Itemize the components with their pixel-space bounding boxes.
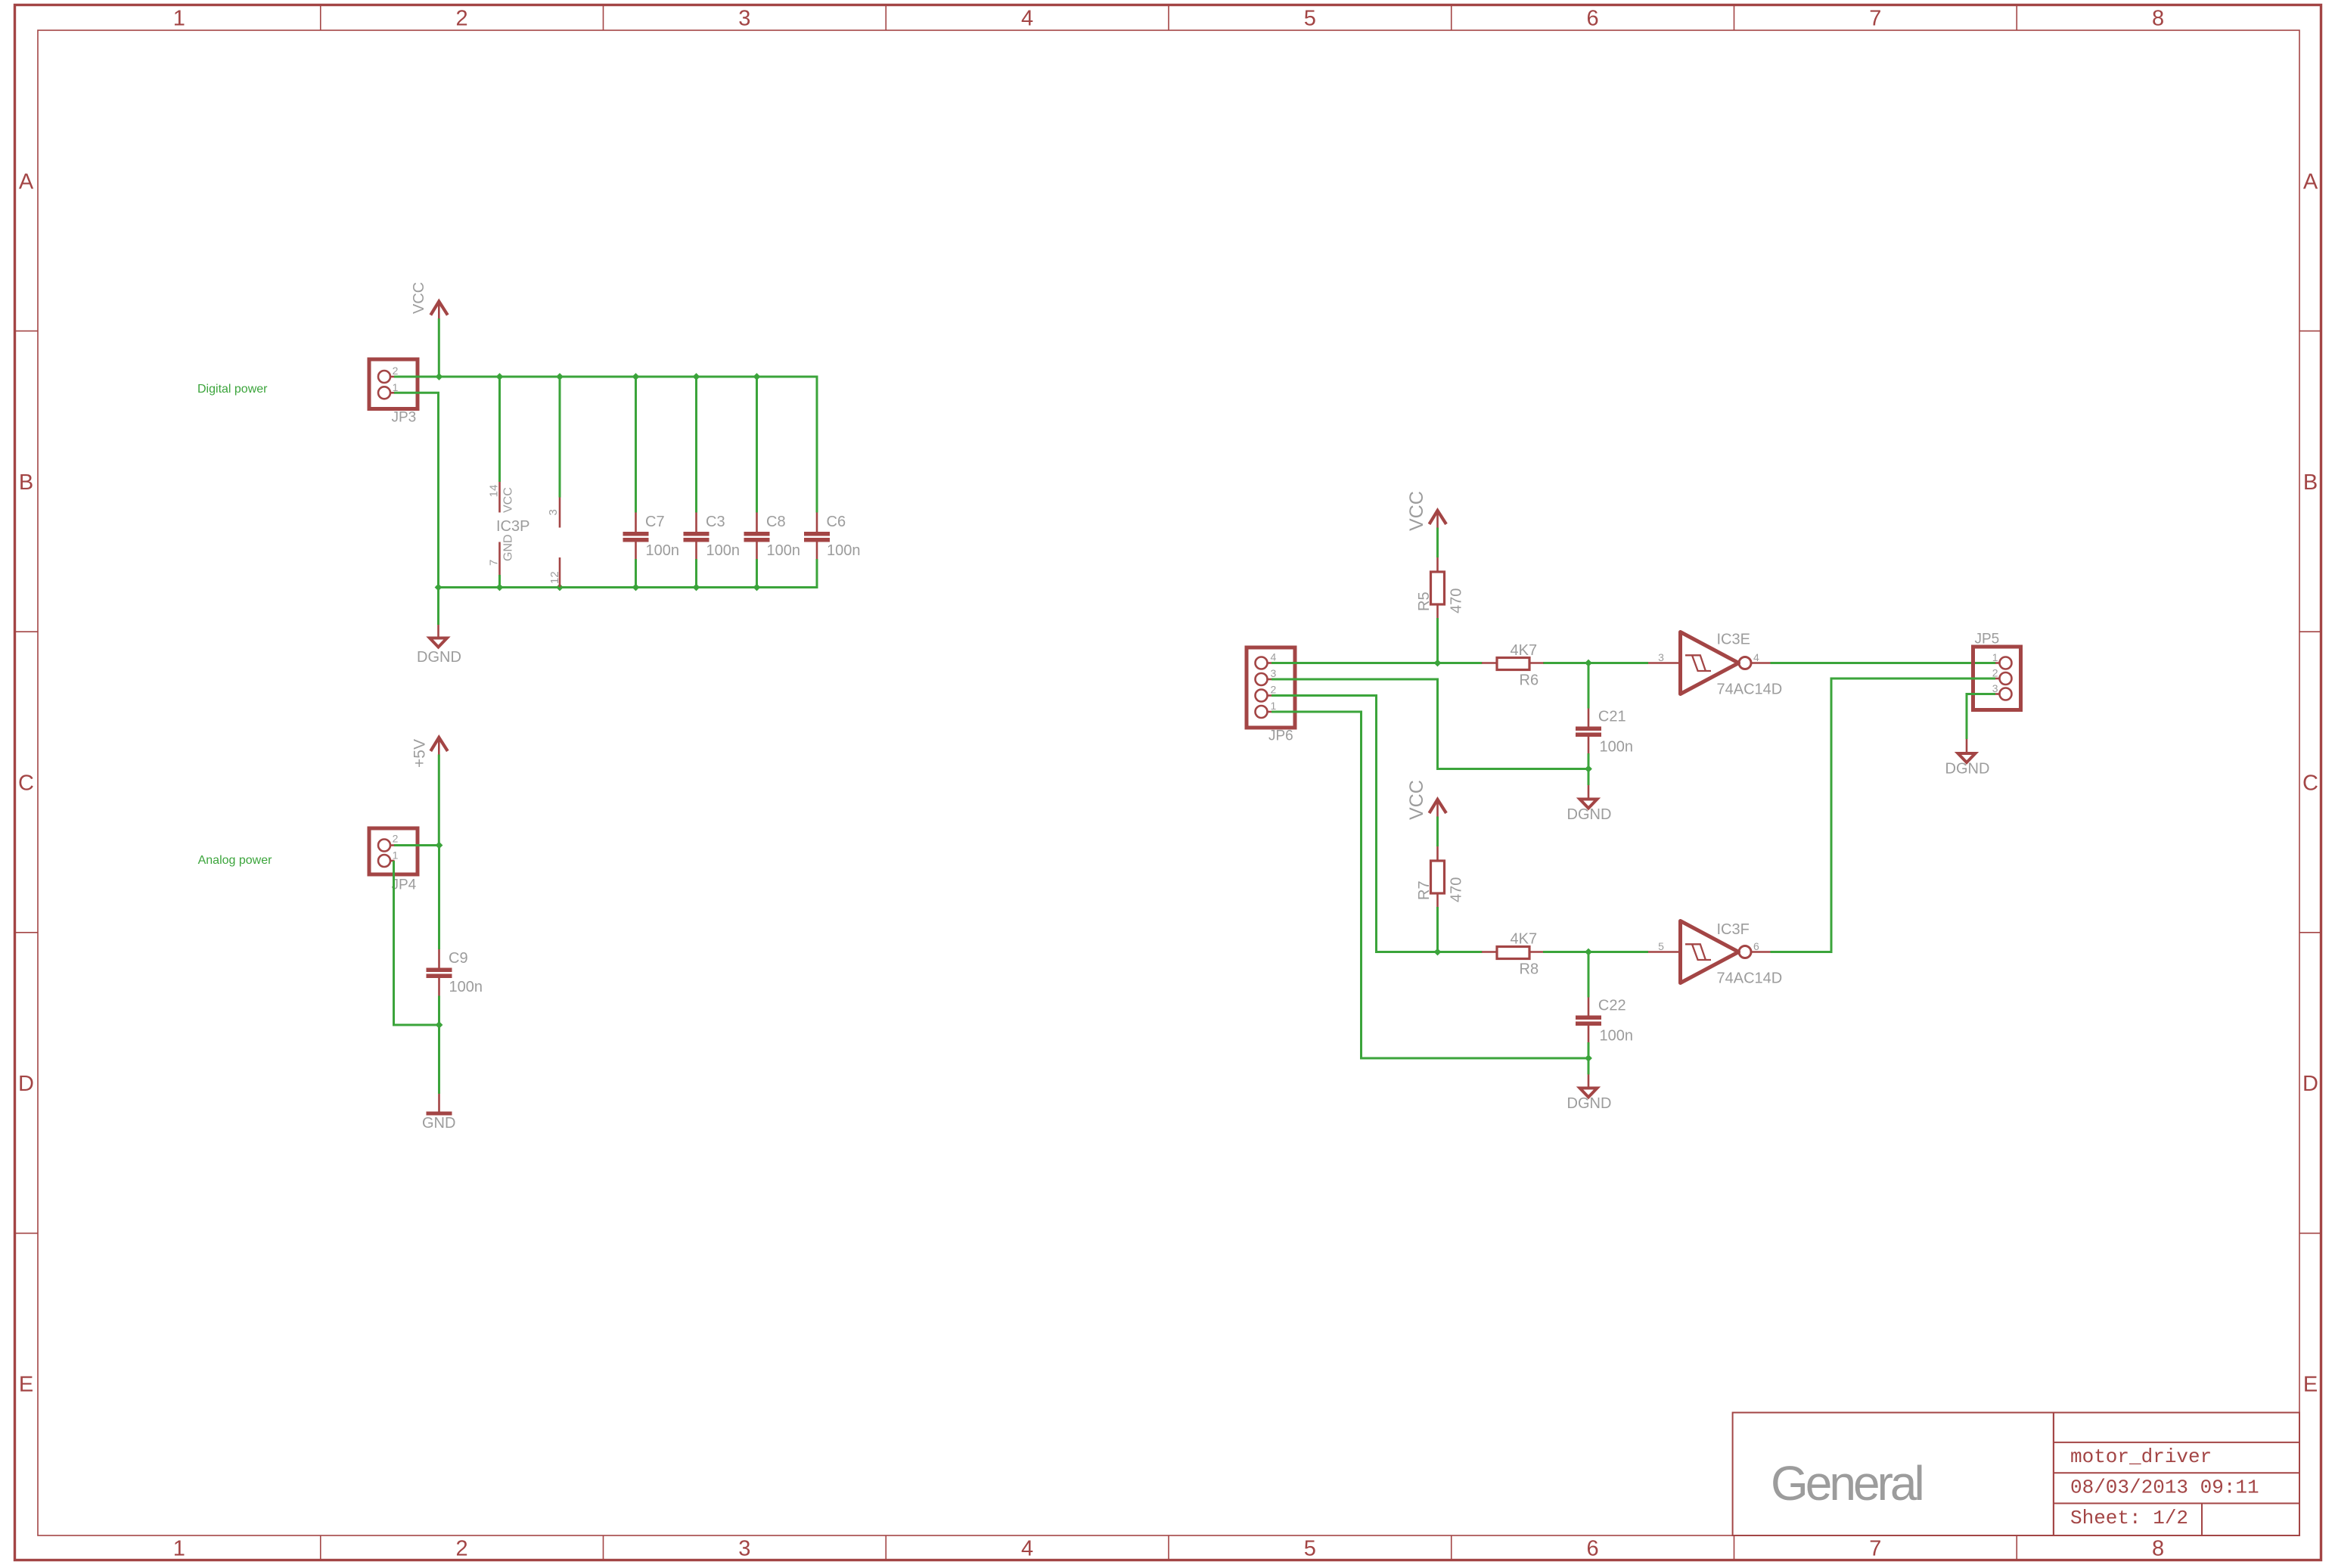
svg-text:3: 3: [1658, 651, 1664, 663]
junction: [1434, 660, 1442, 667]
wire DGND from JP3 pin1: [394, 393, 439, 587]
svg-text:2: 2: [1271, 683, 1277, 695]
svg-text:4: 4: [1021, 7, 1033, 31]
svg-text:2: 2: [456, 7, 468, 31]
svg-text:1: 1: [173, 7, 185, 31]
svg-text:8: 8: [2152, 1537, 2164, 1561]
svg-text:1: 1: [173, 1537, 185, 1561]
ground DGND 2: [1567, 1075, 1612, 1113]
svg-text:100n: 100n: [1600, 739, 1634, 756]
svg-text:DGND: DGND: [1567, 806, 1612, 823]
wire VCC to rail: [438, 318, 440, 377]
ground GND: [422, 1094, 455, 1132]
svg-text:R5: R5: [1416, 591, 1433, 611]
capacitor C7: [623, 513, 680, 560]
svg-text:A: A: [19, 169, 34, 194]
svg-text:C7: C7: [645, 514, 665, 530]
svg-text:E: E: [2303, 1373, 2318, 1397]
wire C9 bottom: [438, 996, 440, 1026]
svg-text:DGND: DGND: [417, 649, 461, 666]
wire C22 top: [1588, 952, 1590, 998]
svg-text:VCC: VCC: [411, 282, 427, 314]
svg-text:4: 4: [1271, 650, 1277, 663]
svg-text:E: E: [19, 1373, 33, 1397]
svg-text:D: D: [2302, 1072, 2318, 1096]
ground DGND: [417, 625, 461, 666]
wire VCC branch to C3: [695, 377, 697, 513]
power symbol VCC at R5: [1406, 491, 1446, 531]
svg-text:5: 5: [1304, 7, 1316, 31]
wire +5V to JP4: [438, 755, 440, 846]
wire node to R8: [1438, 951, 1483, 953]
svg-text:IC3P: IC3P: [496, 518, 529, 535]
junction: [753, 373, 761, 380]
wire DGND branch IC3P pin7: [498, 575, 501, 588]
svg-text:7: 7: [487, 560, 500, 566]
wire JP4 pin1 to GND node: [394, 861, 439, 1025]
svg-text:Analog power: Analog power: [198, 854, 273, 867]
svg-text:4K7: 4K7: [1511, 642, 1538, 659]
svg-text:470: 470: [1449, 877, 1465, 902]
wire VCC branch to IC3P pin14: [498, 377, 501, 482]
text Digital power: [197, 383, 268, 396]
svg-text:C: C: [2302, 772, 2318, 796]
wire JP6 pin4 to R6: [1272, 662, 1483, 664]
svg-text:Sheet: 1/2: Sheet: 1/2: [2070, 1507, 2188, 1529]
wire VCC branch to IC3P pin3: [559, 377, 561, 498]
svg-text:DGND: DGND: [1945, 761, 1990, 778]
capacitor C9: [427, 949, 483, 996]
svg-text:R8: R8: [1520, 961, 1539, 978]
junction: [436, 842, 443, 849]
svg-text:D: D: [18, 1072, 34, 1096]
junction: [753, 584, 761, 591]
svg-text:JP6: JP6: [1268, 728, 1293, 744]
svg-text:4: 4: [1021, 1537, 1033, 1561]
power symbol +5V: [411, 737, 448, 768]
svg-text:08/03/2013 09:11: 08/03/2013 09:11: [2070, 1476, 2259, 1499]
junction: [1585, 1054, 1592, 1062]
svg-text:C9: C9: [449, 950, 468, 967]
wire JP5 pin3 to DGND: [1967, 694, 1995, 740]
svg-text:JP3: JP3: [392, 410, 417, 426]
resistor R6: [1482, 642, 1544, 689]
ground DGND 1: [1567, 785, 1612, 823]
wire DGND stub down: [437, 588, 439, 626]
wire DGND rail: [439, 559, 818, 588]
wire VCC branch to C8: [756, 377, 758, 513]
inverter gate IC3E: [1648, 632, 1782, 698]
svg-text:C6: C6: [827, 514, 846, 530]
svg-text:GND: GND: [422, 1115, 455, 1132]
svg-text:A: A: [2303, 169, 2318, 194]
svg-text:3: 3: [738, 7, 750, 31]
svg-text:100n: 100n: [827, 542, 861, 559]
wire DGND branch C3: [695, 559, 697, 588]
svg-text:C22: C22: [1598, 998, 1626, 1014]
junction: [1434, 949, 1442, 956]
capacitor C6: [804, 513, 861, 560]
svg-text:74AC14D: 74AC14D: [1717, 970, 1783, 987]
junction: [436, 1021, 443, 1029]
svg-text:74AC14D: 74AC14D: [1717, 682, 1783, 698]
inverter gate IC3F: [1648, 921, 1782, 987]
svg-text:100n: 100n: [767, 542, 801, 559]
wire to DGND 2: [1588, 1058, 1590, 1075]
capacitor C22: [1576, 998, 1633, 1045]
junction: [632, 584, 640, 591]
svg-text:GND: GND: [502, 534, 515, 561]
svg-text:1: 1: [393, 381, 399, 393]
svg-text:C21: C21: [1598, 709, 1626, 725]
svg-text:Digital power: Digital power: [197, 383, 268, 396]
wire R8 to C22 node: [1543, 951, 1648, 953]
svg-text:1: 1: [1271, 700, 1277, 712]
svg-text:100n: 100n: [1600, 1028, 1634, 1045]
junction: [1585, 765, 1592, 773]
junction: [556, 373, 564, 380]
svg-text:5: 5: [1304, 1537, 1316, 1561]
power symbol VCC at R7: [1406, 780, 1446, 820]
wire DGND branch C7: [635, 559, 637, 588]
svg-text:100n: 100n: [646, 542, 680, 559]
svg-text:C3: C3: [706, 514, 725, 530]
svg-text:4K7: 4K7: [1511, 931, 1538, 948]
svg-text:IC3F: IC3F: [1717, 921, 1750, 938]
svg-text:JP4: JP4: [392, 877, 417, 893]
wire VCC to R7: [1436, 817, 1439, 847]
junction: [496, 584, 504, 591]
svg-text:B: B: [2303, 470, 2318, 495]
svg-text:100n: 100n: [706, 542, 741, 559]
svg-text:3: 3: [1992, 682, 1998, 694]
svg-text:+5V: +5V: [411, 739, 429, 768]
wire VCC rail: [394, 377, 817, 513]
resistor R7: [1416, 846, 1465, 907]
junction: [435, 584, 442, 591]
svg-text:5: 5: [1658, 940, 1664, 952]
capacitor C21: [1576, 709, 1633, 756]
svg-text:IC3E: IC3E: [1717, 632, 1750, 648]
wire to GND: [438, 1025, 440, 1094]
junction: [632, 373, 640, 380]
wire VCC to R5: [1436, 528, 1439, 558]
svg-text:4: 4: [1753, 651, 1759, 663]
svg-text:3: 3: [738, 1537, 750, 1561]
connector JP5: [1973, 632, 2021, 710]
svg-text:R7: R7: [1416, 880, 1433, 900]
svg-text:7: 7: [1869, 1537, 1881, 1561]
wire JP6 pin3 to C21 bottom: [1272, 679, 1588, 769]
svg-text:motor_driver: motor_driver: [2070, 1445, 2212, 1468]
connector JP6: [1247, 647, 1295, 744]
resistor R5: [1416, 557, 1465, 618]
capacitor C3: [684, 513, 741, 560]
wire R7 to node: [1436, 907, 1439, 952]
wire JP6 pin1 to C22 bottom: [1272, 712, 1588, 1058]
wire C21 top: [1588, 663, 1590, 709]
capacitor C8: [744, 513, 801, 560]
svg-text:VCC: VCC: [1406, 780, 1427, 820]
svg-text:2: 2: [393, 365, 399, 377]
svg-text:B: B: [19, 470, 33, 495]
svg-text:VCC: VCC: [502, 487, 515, 513]
svg-text:1: 1: [1992, 651, 1998, 663]
ground DGND at JP5: [1945, 739, 1990, 778]
wire R6 to C21 node: [1543, 662, 1648, 664]
svg-text:6: 6: [1587, 7, 1599, 31]
wire to DGND 1: [1588, 769, 1590, 786]
wire IC3F output to JP5 pin2: [1771, 678, 1996, 952]
svg-text:2: 2: [456, 1537, 468, 1561]
svg-text:12: 12: [548, 571, 561, 584]
text Analog power: [198, 854, 273, 867]
wire VCC branch to C7: [635, 377, 637, 513]
svg-text:6: 6: [1587, 1537, 1599, 1561]
resistor R8: [1482, 931, 1544, 978]
svg-text:14: 14: [487, 485, 500, 498]
svg-text:C: C: [18, 772, 34, 796]
svg-text:JP5: JP5: [1975, 632, 2000, 647]
junction: [496, 373, 504, 380]
wire C22 bottom: [1588, 1042, 1590, 1058]
svg-text:2: 2: [393, 833, 399, 845]
connector JP4: [369, 828, 418, 893]
svg-text:3: 3: [1271, 667, 1277, 679]
wire +5V down to C9: [438, 846, 440, 950]
wire DGND branch C8: [756, 559, 758, 588]
connector JP3: [369, 359, 418, 426]
svg-text:C8: C8: [766, 514, 786, 530]
svg-text:1: 1: [393, 849, 399, 862]
svg-text:6: 6: [1753, 940, 1759, 952]
junction: [693, 373, 700, 380]
svg-text:470: 470: [1449, 588, 1465, 613]
svg-text:VCC: VCC: [1406, 491, 1427, 531]
power symbol VCC at JP3: [411, 282, 448, 318]
junction: [693, 584, 700, 591]
junction: [1585, 660, 1592, 667]
svg-text:DGND: DGND: [1567, 1095, 1612, 1112]
wire JP6 pin2 to R8 node: [1272, 696, 1438, 952]
wire IC3E output to JP5 pin1: [1771, 662, 1996, 664]
junction: [1585, 949, 1592, 956]
svg-text:General: General: [1771, 1456, 1922, 1511]
wire C21 bottom: [1588, 753, 1590, 769]
svg-text:3: 3: [547, 509, 560, 515]
svg-text:100n: 100n: [449, 979, 483, 995]
svg-text:7: 7: [1869, 7, 1881, 31]
title block: [1733, 1413, 2299, 1536]
svg-text:8: 8: [2152, 7, 2164, 31]
wire JP4 pin2 to node: [394, 844, 439, 846]
junction: [436, 373, 443, 380]
svg-text:R6: R6: [1520, 672, 1539, 689]
svg-text:2: 2: [1992, 667, 1998, 679]
wire R5 to rail: [1436, 618, 1439, 663]
junction: [556, 584, 564, 591]
IC power part IC3P: [487, 482, 560, 587]
